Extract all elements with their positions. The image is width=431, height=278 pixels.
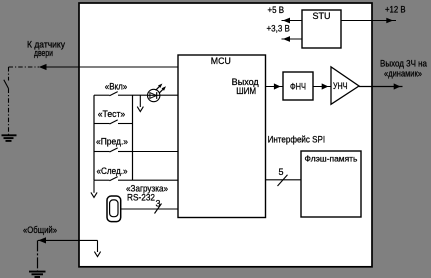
ground (door sensor) xyxy=(2,135,17,141)
wire external dash-dot vertical xyxy=(8,67,10,135)
wire +3.3V into STU xyxy=(282,36,303,42)
svg-text:+12 В: +12 В xyxy=(385,5,406,15)
wire +12V out of STU xyxy=(341,18,396,24)
svg-text:STU: STU xyxy=(313,11,331,21)
switch «Вкл» xyxy=(94,92,133,96)
wire common to ground xyxy=(38,237,98,271)
wire door sensor to MCU xyxy=(45,66,179,68)
flash memory DS1 xyxy=(301,151,361,217)
low-pass filter ФНЧ xyxy=(283,72,313,100)
wire +5V into STU xyxy=(282,18,303,24)
svg-text:«Вкл»: «Вкл» xyxy=(105,81,128,91)
main board outline xyxy=(79,3,372,267)
wire Пред switch to MCU xyxy=(133,151,179,153)
door switch contact xyxy=(4,80,9,89)
connector X1 RS-232 xyxy=(107,196,121,222)
wire RS-232 connector to MCU xyxy=(121,208,178,210)
label Выход 3Ч на «динамик» xyxy=(380,59,427,79)
common-net arrow inside board xyxy=(94,240,100,256)
svg-text:5: 5 xyxy=(279,167,284,177)
wire ФНЧ to УНЧ xyxy=(313,83,331,89)
svg-text:«Общий»: «Общий» xyxy=(23,225,57,235)
svg-text:«Пред.»: «Пред.» xyxy=(96,137,128,147)
switch «Пред.» xyxy=(94,148,133,152)
svg-text:Флэш-память: Флэш-память xyxy=(305,153,358,163)
bus width slash 3 xyxy=(155,198,162,213)
switch «След.» xyxy=(94,177,133,181)
svg-text:«динамик»: «динамик» xyxy=(384,69,422,79)
svg-text:RS-232: RS-232 xyxy=(127,193,155,203)
svg-text:+5 В: +5 В xyxy=(268,5,285,15)
wire УНЧ output to speaker xyxy=(359,83,403,89)
svg-text:Интерфейс SPI: Интерфейс SPI xyxy=(268,134,326,144)
svg-text:«След.»: «След.» xyxy=(97,166,128,176)
svg-text:+3,3 В: +3,3 В xyxy=(267,24,290,34)
buttons block outline xyxy=(94,95,133,180)
svg-text:ШИМ: ШИМ xyxy=(236,86,256,96)
common-net arrow below Вкл wire xyxy=(137,95,143,111)
label «Загрузка» RS-232 xyxy=(126,184,168,203)
amplifier УНЧ xyxy=(331,67,359,105)
svg-text:«Тест»: «Тест» xyxy=(98,109,126,119)
switch «Тест» xyxy=(94,120,133,124)
arrow to door sensor (left) xyxy=(39,64,47,70)
wire MCU to flash (SPI bus) xyxy=(266,179,302,181)
wire След switch to MCU xyxy=(133,179,179,181)
common-net arrow below buttons block xyxy=(91,180,97,197)
ground (common) xyxy=(29,272,46,277)
LED HL1 xyxy=(148,89,160,101)
wire Вкл switch to MCU xyxy=(133,94,179,96)
wire MCU PWM out to ФНЧ xyxy=(266,83,284,89)
svg-text:3: 3 xyxy=(156,198,161,208)
voltage regulator STU xyxy=(302,10,341,48)
svg-text:Выход 3Ч на: Выход 3Ч на xyxy=(380,59,427,69)
LED emission arrows xyxy=(156,84,166,94)
svg-text:двери: двери xyxy=(34,48,53,58)
bus width slash 5 xyxy=(278,167,288,186)
svg-text:MCU: MCU xyxy=(211,56,231,66)
svg-text:ФНЧ: ФНЧ xyxy=(290,81,306,91)
label "К датчику двери" xyxy=(27,40,65,59)
wire external dash-dot to corner xyxy=(9,66,40,68)
svg-text:УНЧ: УНЧ xyxy=(333,81,348,91)
MCU U1 xyxy=(178,55,266,218)
